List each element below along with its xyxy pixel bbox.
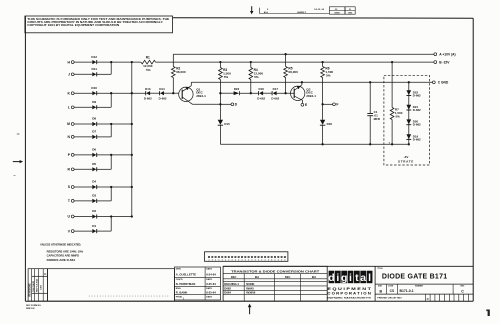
svg-text:DATE: DATE [206,278,212,281]
svg-text:A1A: A1A [264,11,269,14]
svg-text:2894-1: 2894-1 [306,94,316,98]
junction [321,61,323,63]
transistor Q2 [291,85,317,101]
diode D21 [406,105,421,112]
wire [74,216,132,218]
svg-text:t: t [355,272,359,284]
wire pair join [110,62,112,74]
junction [321,103,323,105]
diode D15 [218,120,230,126]
resistor R6 [321,62,334,104]
svg-text:6-24-64: 6-24-64 [206,272,216,276]
svg-text:D13: D13 [145,87,151,91]
svg-text:5%: 5% [146,68,151,72]
wire [74,106,111,108]
svg-text:DATE: DATE [206,295,212,298]
diode D7 [92,130,96,139]
svg-text:DIODE GATE B171: DIODE GATE B171 [382,273,447,280]
title block [223,266,473,299]
svg-text:CS: CS [390,289,394,293]
svg-text:68,000: 68,000 [288,70,298,74]
svg-text:A. GUELLETTE: A. GUELLETTE [176,272,196,276]
junction [110,123,112,125]
resistor R1 [141,56,156,72]
wire [74,230,111,232]
svg-text:D1: D1 [92,224,96,228]
wire +10V rail [173,53,434,55]
svg-text:D2: D2 [92,209,96,213]
junction [219,92,221,94]
svg-text:D-662: D-662 [413,138,421,142]
wire [150,92,160,94]
svg-text:DATE: DATE [206,268,212,271]
pin C [432,81,449,85]
svg-text:68,000: 68,000 [176,70,186,74]
svg-text:-3V: -3V [404,155,409,159]
diode D8 [92,117,96,126]
diode D9 [92,100,96,109]
diode D14 [159,87,167,101]
svg-text:MFD: MFD [374,117,381,121]
wire [74,154,132,156]
svg-text:R. BANK: R. BANK [176,291,188,295]
svg-text:RESISTORS ARE 1/4W; 10%: RESISTORS ARE 1/4W; 10% [47,249,84,253]
input pin R [68,168,75,172]
svg-text:B: B [379,289,382,293]
svg-text:D3: D3 [92,194,96,198]
diode D22 [406,90,421,97]
bottom right page mark [488,310,490,317]
svg-text:CHK'D: CHK'D [176,279,183,281]
junction [391,61,393,63]
svg-text:5%: 5% [326,74,331,78]
diode D11 [91,67,97,76]
top margin reference strip [260,7,356,15]
svg-text:DRN.: DRN. [176,269,182,271]
copyright notice box [25,16,173,33]
diode D2 [92,209,96,218]
svg-text:C O R P O R A T I O N: C O R P O R A T I O N [327,291,371,295]
svg-text:L: L [68,106,70,110]
pin F [323,103,339,107]
wire [74,200,111,202]
input pin T [68,199,74,203]
svg-text:6-25-64: 6-25-64 [206,291,216,295]
svg-text:2894-1: 2894-1 [196,94,206,98]
svg-text:PRINTED CIRCUIT REV.: PRINTED CIRCUIT REV. [377,298,402,300]
drafting signature box [175,267,221,301]
wire Q1 collector row [193,103,221,105]
svg-text:IN3606: IN3606 [246,291,255,295]
svg-text:d: d [328,272,334,284]
wire [240,92,259,94]
input pin U [68,215,75,219]
pin B [434,60,450,64]
input pin K [68,91,75,95]
wire Q2 emitter to GND [301,82,303,85]
printed circuit rev boxes [425,294,468,301]
svg-text:R1: R1 [146,56,150,60]
svg-text:MAYNARD, MASSACHUSETTS: MAYNARD, MASSACHUSETTS [327,296,372,299]
svg-text:D7: D7 [92,130,96,134]
input pin M [67,122,74,126]
DEC digital logo [327,266,375,301]
input pin H [68,60,75,64]
connector strip [205,252,288,261]
junction [250,61,252,63]
junction [301,81,303,83]
svg-text:DIODES ARE D-664: DIODES ARE D-664 [47,258,76,262]
junction [131,186,133,188]
svg-text:CAPACITORS ARE MMFD: CAPACITORS ARE MMFD [47,254,80,258]
svg-text:D23: D23 [234,87,240,91]
svg-text:ASSEM Y: ASSEM Y [297,11,307,14]
svg-text:EIA: EIA [312,275,316,279]
svg-text:F: F [336,103,338,107]
svg-text:UNLESS OTHERWISE INDICATED;: UNLESS OTHERWISE INDICATED; [40,242,81,246]
resistor R2 [171,67,185,78]
junction [110,215,112,217]
svg-text:TRANSISTOR & DIODE CONVERSION: TRANSISTOR & DIODE CONVERSION CHART [231,269,319,273]
diode D5 [92,162,96,171]
left margin tick bottom [14,175,16,177]
wire collector node column [219,80,221,120]
wire pair join [110,124,112,137]
svg-text:REV.: REV. [460,286,465,288]
junction [250,92,252,94]
junction [369,81,371,83]
svg-text:A +10V (A): A +10V (A) [439,52,455,56]
svg-text:l: l [368,272,371,284]
transistor Q1 [179,86,206,105]
left margin arrow [13,160,23,163]
wire diode chain column [408,82,410,144]
svg-text:REV 6-8-64A: REV 6-8-64A [35,279,38,292]
svg-text:C: C [461,289,464,293]
wire [220,92,233,94]
svg-text:EIA: EIA [255,275,259,279]
ruler dots [89,295,168,298]
svg-text:i: i [349,272,352,284]
junction [284,53,286,55]
diode D3 [92,194,96,203]
junction [408,81,410,83]
junction [321,143,323,145]
junction [284,92,286,94]
input pin S [68,185,74,189]
diode D4 [92,180,96,189]
diode D19 [406,134,421,141]
diode D6 [92,148,96,157]
resistor R5 [284,54,298,93]
svg-text:D664: D664 [224,291,231,295]
pin A [434,52,456,56]
wire [74,123,132,125]
svg-text:39600: 39600 [334,13,340,15]
input pin N [68,135,75,139]
svg-text:D-662: D-662 [257,97,265,101]
svg-text:D15: D15 [224,122,230,126]
label -3V STRATE [398,155,414,164]
svg-text:D5: D5 [92,162,96,166]
wire -3V rail [220,143,408,145]
wire -15V rail [96,61,434,63]
wire [74,61,92,63]
svg-text:NONE: NONE [246,282,254,286]
junction [110,154,112,156]
wire [74,136,111,138]
svg-text:D14: D14 [159,87,165,91]
svg-text:g: g [341,272,347,284]
diode D23 [234,87,240,95]
svg-text:DEC FORM NO.: DEC FORM NO. [26,305,42,307]
border frame [25,16,473,301]
junction [131,215,133,217]
wire [219,125,221,144]
diode D17 [271,87,279,101]
DEC form number [26,305,42,310]
diode D16 [257,87,265,101]
wire GND line [191,81,432,83]
pin E [301,100,308,107]
diode D20 [406,119,421,126]
junction [219,61,221,63]
resistor R7 [390,62,402,144]
svg-text:a: a [360,272,366,284]
wire [322,125,324,144]
wire pair join [110,187,112,201]
capacitor C1 [367,82,381,144]
diode D12 [91,55,97,64]
input pin J [68,73,74,77]
svg-text:D11: D11 [91,67,97,71]
svg-text:5%: 5% [224,75,229,79]
svg-text:E Q U I P M E N T: E Q U I P M E N T [327,287,371,291]
svg-text:D17: D17 [273,87,279,91]
input pin L [68,106,74,110]
svg-text:DEC: DEC [285,275,291,279]
svg-text:D-662: D-662 [159,97,167,101]
junction [391,143,393,145]
svg-text:CODE: CODE [388,286,394,288]
svg-text:D12: D12 [91,55,97,59]
svg-text:D8: D8 [92,117,96,121]
junction [408,143,410,145]
junction [369,143,371,145]
svg-text:5%: 5% [254,75,259,79]
svg-text:6-25-64: 6-25-64 [206,282,216,286]
wire R2 column [172,54,174,93]
svg-text:COPYRIGHT 1964 BY DIGITAL EQUI: COPYRIGHT 1964 BY DIGITAL EQUIPMENT CORP… [27,23,119,27]
svg-text:DEC: DEC [231,275,237,279]
revisions table [28,269,47,301]
wire [74,73,111,75]
input pin V [68,229,74,233]
svg-text:CHK DATE: CHK DATE [32,280,35,292]
svg-text:M: M [67,122,70,126]
svg-text:C GND: C GND [438,81,449,85]
wire [164,92,179,94]
svg-text:D-662: D-662 [413,123,421,127]
wire [74,92,146,94]
svg-text:D16: D16 [259,87,265,91]
wire [276,92,294,94]
junction [219,103,221,105]
wire Q1 emitter to GND [190,82,192,85]
diode D1 [92,224,96,233]
svg-text:DEC2894-1: DEC2894-1 [224,282,239,286]
svg-text:i: i [336,272,339,284]
diode D10 [91,86,97,95]
approval box (empty) [48,269,175,301]
svg-text:D-662: D-662 [413,94,421,98]
junction [110,61,112,63]
svg-text:B -15V: B -15V [439,60,450,64]
svg-text:D18: D18 [327,122,333,126]
junction [131,92,133,94]
svg-text:J: J [68,73,70,77]
pin D [221,103,237,107]
wire [74,186,132,188]
wire pair join [110,93,112,107]
wire pair join [110,217,112,232]
svg-text:D4: D4 [92,180,96,184]
resistor R3 [219,62,232,79]
svg-text:D-662: D-662 [144,97,152,101]
junction [110,92,112,94]
transistor & diode conversion chart [223,266,327,301]
svg-text:5%: 5% [396,114,401,118]
svg-text:REVISIONS: REVISIONS [29,283,32,296]
svg-text:D-662: D-662 [271,97,279,101]
svg-text:DRB 102: DRB 102 [26,308,35,310]
svg-text:NUMBER: NUMBER [415,286,424,288]
junction [131,154,133,156]
svg-text:1369: 1369 [41,284,43,290]
notes text [40,242,83,262]
wire [263,92,272,94]
diode D18 [320,104,332,126]
resistor R4 [249,62,263,93]
svg-text:D9: D9 [92,100,96,104]
wire input bus [131,62,133,216]
junction [172,92,174,94]
svg-text:B171-0-1: B171-0-1 [400,289,414,293]
wire [74,168,111,170]
left margin tick top [17,133,20,135]
dashed box -3V network [384,75,430,165]
svg-text:D-662: D-662 [413,108,421,112]
wire pair join [110,155,112,169]
svg-text:5-0-12,-14: 5-0-12,-14 [314,8,324,11]
diode D13 [144,87,152,101]
junction [131,123,133,125]
junction [131,61,133,63]
input pin P [68,153,74,157]
top margin down arrow [250,6,253,14]
svg-text:TITLE: TITLE [377,268,383,270]
svg-text:D6: D6 [92,148,96,152]
junction [110,186,112,188]
svg-text:D10: D10 [91,86,97,90]
bottom up arrow [248,304,252,315]
svg-text:N. PERRYMAN: N. PERRYMAN [176,282,195,286]
svg-text:STRATE: STRATE [398,160,414,164]
